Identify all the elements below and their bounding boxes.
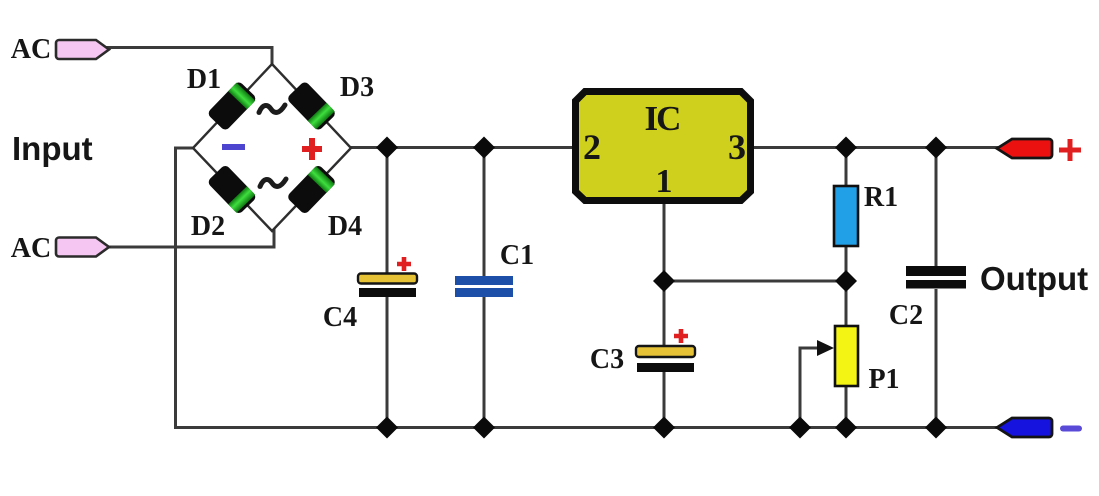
label D3 <box>340 72 374 103</box>
minus polarity mark bridge <box>222 144 245 150</box>
node junction C1 bottom <box>473 417 495 439</box>
label Input <box>12 130 93 167</box>
diode D3 <box>286 80 337 131</box>
node junction C3 bottom <box>653 417 675 439</box>
label AC bottom <box>11 233 51 264</box>
capacitor C2 <box>906 266 966 289</box>
label D4 <box>328 211 362 242</box>
svg-text:Output: Output <box>980 260 1088 297</box>
svg-text:C2: C2 <box>889 300 923 331</box>
svg-text:D2: D2 <box>191 211 225 242</box>
label R1 <box>864 182 898 213</box>
svg-text:3: 3 <box>728 127 746 167</box>
label D1 <box>187 64 221 95</box>
svg-text:C3: C3 <box>590 344 624 375</box>
node junction C1 top <box>473 137 495 159</box>
minus mark output <box>1060 426 1082 432</box>
label Output <box>980 260 1088 297</box>
wire bottom rail <box>174 426 999 429</box>
pin 1 label <box>656 163 673 200</box>
node junction P1 bottom <box>835 417 857 439</box>
svg-text:Input: Input <box>12 130 93 167</box>
svg-text:P1: P1 <box>868 364 899 395</box>
label C1 <box>500 240 534 271</box>
svg-text:2: 2 <box>583 127 601 167</box>
svg-text:AC: AC <box>11 34 51 65</box>
plus mark C4 <box>397 257 411 271</box>
label AC top <box>11 34 51 65</box>
terminal AC bottom <box>56 238 109 257</box>
pin 2 label <box>583 127 601 167</box>
node junction C2 bottom <box>925 417 947 439</box>
svg-text:D1: D1 <box>187 64 221 95</box>
pin 3 label <box>728 127 746 167</box>
terminal AC top <box>56 40 109 59</box>
wire P1 column <box>845 281 848 427</box>
diode D1 <box>207 80 258 131</box>
svg-text:AC: AC <box>11 233 51 264</box>
capacitor C1 <box>455 276 513 297</box>
terminal output negative <box>997 418 1052 437</box>
svg-text:IC: IC <box>645 99 680 138</box>
capacitor C4 electrolytic <box>358 274 417 298</box>
wire P1 wiper <box>800 340 834 427</box>
wire output rail IC pin 3 to + terminal <box>752 146 999 149</box>
wire C3 column <box>663 281 666 427</box>
wire C4 column <box>386 147 389 427</box>
svg-text:1: 1 <box>656 163 673 200</box>
node junction adjust right <box>835 270 857 292</box>
node junction C2 top <box>925 137 947 159</box>
AC symbol tilde bottom <box>260 179 286 187</box>
bridge diamond wires <box>193 64 351 231</box>
diode D4 <box>286 164 337 215</box>
wire bridge minus node to bottom-left corner <box>176 148 194 426</box>
wire adjust rail <box>664 280 846 283</box>
capacitor C3 electrolytic <box>636 346 695 372</box>
terminal output positive <box>997 139 1052 158</box>
potentiometer P1 <box>835 326 858 386</box>
svg-text:C4: C4 <box>323 302 357 333</box>
wire IC pin 1 down to adjust rail <box>663 203 666 281</box>
plus mark C3 <box>674 329 688 343</box>
resistor R1 <box>834 186 858 246</box>
IC regulator <box>576 92 751 201</box>
node junction R1 top <box>835 137 857 159</box>
node junction wiper bottom <box>789 417 811 439</box>
node junction adjust left <box>653 270 675 292</box>
label C4 <box>323 302 357 333</box>
wire R1 column <box>845 147 848 281</box>
label P1 <box>868 364 899 395</box>
wire C1 column <box>483 147 486 427</box>
label IC <box>645 99 680 138</box>
wire bottom AC to bridge bottom node <box>106 229 274 247</box>
svg-text:C1: C1 <box>500 240 534 271</box>
AC symbol tilde top <box>259 105 285 113</box>
label D2 <box>191 211 225 242</box>
node junction C4 top <box>376 137 398 159</box>
svg-text:R1: R1 <box>864 182 898 213</box>
svg-text:D3: D3 <box>340 72 374 103</box>
label C3 <box>590 344 624 375</box>
node junction C4 bottom <box>376 417 398 439</box>
diode D2 <box>207 164 258 215</box>
wire C2 column <box>935 147 938 427</box>
plus polarity mark bridge <box>302 138 322 160</box>
wire top AC to bridge top node <box>106 48 272 67</box>
wire positive rail bridge to IC pin 2 <box>350 146 575 149</box>
label C2 <box>889 300 923 331</box>
svg-text:D4: D4 <box>328 211 362 242</box>
plus mark output <box>1059 139 1081 161</box>
